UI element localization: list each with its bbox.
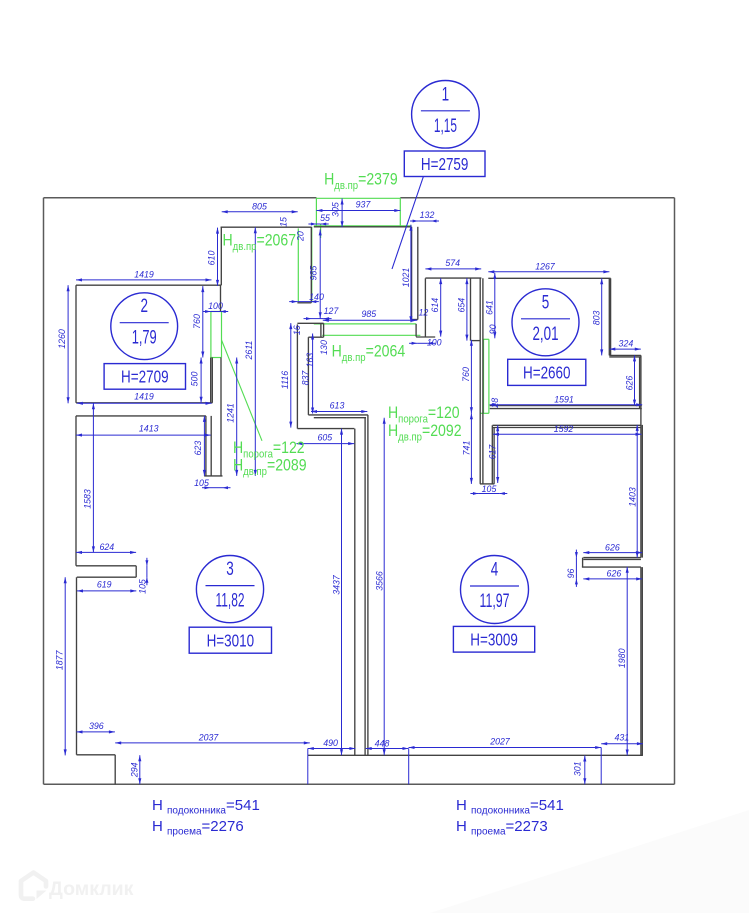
room4 east niche left <box>582 558 584 568</box>
room3 left wall upper <box>75 416 77 566</box>
east wall line a <box>640 355 642 557</box>
outer wall border right <box>674 198 676 785</box>
room 2 circle label <box>111 293 178 360</box>
svg-text:20: 20 <box>296 231 306 242</box>
dimension 2027 <box>409 747 602 749</box>
dimension 1241 <box>236 358 238 476</box>
green door room2 right line <box>221 312 223 358</box>
svg-text:641: 641 <box>485 300 495 315</box>
room 5 circle label <box>512 289 579 356</box>
svg-text:163: 163 <box>305 353 315 368</box>
dimension 626 niche bottom <box>583 578 642 580</box>
room5 bottom wall line b <box>490 408 642 410</box>
niche door-side wall <box>415 324 417 337</box>
svg-text:654: 654 <box>457 298 467 313</box>
svg-text:617: 617 <box>488 444 498 460</box>
svg-text:5: 5 <box>542 292 550 313</box>
svg-text:1877: 1877 <box>55 649 65 670</box>
bottom wall rooms 3 and 4 <box>308 754 643 756</box>
svg-text:105: 105 <box>482 484 497 494</box>
svg-text:760: 760 <box>461 367 471 382</box>
room 1 height box <box>404 151 485 177</box>
room3 pilaster top <box>76 565 136 567</box>
dimension 1419 bottom <box>77 402 212 404</box>
room2 right wall outer line <box>211 358 213 403</box>
dimension 500 <box>200 358 202 403</box>
svg-text:301: 301 <box>573 761 583 776</box>
svg-text:396: 396 <box>89 721 104 731</box>
dimension 1591 <box>490 404 643 406</box>
svg-text:500: 500 <box>190 372 200 387</box>
green leader to door room2 labels <box>222 340 263 441</box>
dimension 1980 <box>626 567 628 756</box>
dimension 605 <box>296 443 354 445</box>
room3 pilaster right <box>135 566 137 577</box>
dimension 610 <box>217 228 219 286</box>
svg-text:127: 127 <box>324 306 340 316</box>
svg-text:626: 626 <box>605 542 620 552</box>
room 2 height box <box>104 364 185 390</box>
svg-text:1241: 1241 <box>226 403 236 423</box>
room4 nook wall line a <box>491 425 493 484</box>
green label H dv.pr=2064 <box>332 343 406 365</box>
dimension 614 <box>440 278 442 337</box>
room4 east niche top line a <box>583 557 641 559</box>
green door 2092 left line <box>483 339 485 413</box>
room2 top wall <box>76 284 221 286</box>
room4 east niche top line b <box>583 558 641 560</box>
green label H dv.pr=2067 <box>223 232 297 254</box>
svg-text:1403: 1403 <box>628 487 638 507</box>
hall top wall <box>221 226 312 228</box>
svg-text:3437: 3437 <box>331 574 341 595</box>
room5 top wall <box>488 277 610 279</box>
dimension 1413 <box>76 434 211 436</box>
svg-text:1116: 1116 <box>280 371 290 389</box>
green door 2092 bottom line <box>480 412 489 414</box>
green label H dv.pr=2379 <box>324 171 398 193</box>
green label H dv.pr=2089 <box>233 457 307 479</box>
hall stub bottom <box>308 336 323 338</box>
dimension 1260 <box>67 285 69 403</box>
svg-text:16: 16 <box>292 325 302 335</box>
green door 2064 top line <box>314 323 416 325</box>
svg-text:619: 619 <box>97 579 112 589</box>
outer wall border left <box>43 198 45 785</box>
green door room2 top line <box>211 311 222 313</box>
dimension 803 <box>601 278 603 355</box>
dimension 105 room4 nook <box>478 493 499 495</box>
svg-text:490: 490 <box>323 738 338 748</box>
svg-text:2027: 2027 <box>489 737 511 747</box>
svg-text:132: 132 <box>420 210 435 220</box>
dimension 1583 <box>92 403 94 552</box>
dimension 805 <box>222 211 298 213</box>
outer wall border top-right segment <box>400 197 674 199</box>
green door 2092 right line <box>488 339 490 413</box>
svg-text:Н=2709: Н=2709 <box>121 367 169 387</box>
dimension 100 room2 door <box>211 311 221 313</box>
room2 right wall inner line <box>210 358 212 403</box>
room3 pilaster bottom <box>77 576 136 578</box>
extension line room4 window left <box>408 749 410 785</box>
green label H poroga=120 <box>388 404 460 426</box>
outer wall border bottom <box>44 783 675 785</box>
svg-text:100: 100 <box>427 338 442 348</box>
dimension 654 <box>466 278 468 341</box>
east wall line b <box>641 425 643 558</box>
svg-text:Н=3009: Н=3009 <box>470 629 518 649</box>
dimension 624 <box>76 551 136 553</box>
svg-text:96: 96 <box>566 569 576 579</box>
room 4 circle label <box>461 556 529 624</box>
room5 right wall line a <box>608 278 610 355</box>
dimension 2037 <box>115 742 310 744</box>
green door 2064 bottom line <box>322 334 420 336</box>
svg-text:2037: 2037 <box>198 732 220 742</box>
svg-text:55: 55 <box>320 213 330 223</box>
svg-text:1267: 1267 <box>535 261 556 271</box>
hall left wall below room2 door <box>220 358 222 476</box>
svg-text:11,82: 11,82 <box>216 591 245 612</box>
dimension 100 niche <box>417 342 427 344</box>
svg-text:90: 90 <box>488 324 498 334</box>
svg-text:837: 837 <box>301 370 311 386</box>
svg-text:3: 3 <box>226 559 234 580</box>
svg-text:741: 741 <box>461 441 471 456</box>
green hall left wall line <box>311 227 313 302</box>
dimension 1419 top <box>76 279 212 281</box>
dimension 623 <box>203 416 205 476</box>
green balcony door sill line <box>316 197 400 199</box>
svg-text:1980: 1980 <box>617 648 627 668</box>
svg-text:805: 805 <box>252 201 267 211</box>
svg-text:Домклик: Домклик <box>49 878 134 900</box>
svg-text:626: 626 <box>607 568 622 578</box>
dimension 3437 <box>341 429 343 756</box>
green door room2 left line <box>210 312 212 358</box>
svg-text:803: 803 <box>592 310 602 325</box>
svg-text:1413: 1413 <box>139 424 159 434</box>
room5 left partition <box>470 278 472 341</box>
svg-text:140: 140 <box>309 292 324 302</box>
bottom-right faint shade <box>430 810 749 913</box>
nook wall bottom cap <box>480 483 494 485</box>
svg-text:12: 12 <box>419 307 429 317</box>
dimension 324 <box>609 348 641 350</box>
dimension 1021 <box>410 225 412 323</box>
svg-text:100: 100 <box>208 301 223 311</box>
dimension 619 <box>77 590 136 592</box>
dimension 2611 <box>254 227 256 476</box>
dimension 140 <box>297 301 311 303</box>
green door frame line <box>320 224 322 238</box>
svg-text:2: 2 <box>140 296 148 317</box>
green balcony door inner line <box>314 225 412 227</box>
room3 top wall left part <box>76 415 206 417</box>
dimension 626 room5 <box>634 355 636 405</box>
hall-room5 wall line b <box>482 278 484 484</box>
dimension 301 <box>584 756 586 785</box>
room 1 circle label <box>412 81 480 149</box>
hall right wall line a <box>411 227 413 320</box>
dimension 760 hall door <box>470 340 472 414</box>
green balcony door jamb right <box>399 198 401 227</box>
dimension 1403 <box>636 425 638 558</box>
dimension 55 <box>316 223 320 225</box>
extension line room3 window left <box>307 749 309 785</box>
svg-text:1419: 1419 <box>134 270 154 280</box>
svg-text:574: 574 <box>445 258 460 268</box>
room 3 height box <box>189 627 271 653</box>
dimension 1116 <box>290 323 292 428</box>
hall stub wall b <box>323 323 325 337</box>
dimension 985 horizontal <box>323 319 417 321</box>
dimension 1877 <box>64 577 66 755</box>
niche top wall <box>425 277 481 279</box>
svg-text:937: 937 <box>356 200 372 210</box>
dimension 574 <box>425 268 481 270</box>
dimension 396 <box>77 731 115 733</box>
hall jog lower horizontal <box>297 322 323 324</box>
svg-text:1260: 1260 <box>57 329 67 349</box>
room2 left wall <box>75 285 77 403</box>
svg-text:Н=2759: Н=2759 <box>421 154 469 174</box>
svg-text:1,15: 1,15 <box>434 116 457 137</box>
svg-text:448: 448 <box>375 738 390 748</box>
svg-text:294: 294 <box>130 762 140 778</box>
dimension 448 <box>366 748 409 750</box>
svg-text:605: 605 <box>317 432 332 442</box>
svg-text:28: 28 <box>490 398 500 409</box>
svg-text:324: 324 <box>619 338 634 348</box>
room5 right step wall line a <box>639 357 641 409</box>
dimension 127 <box>312 318 324 320</box>
room5 step wall bottom line <box>609 356 641 358</box>
svg-text:Н=3010: Н=3010 <box>207 630 255 650</box>
svg-text:2611: 2611 <box>244 340 254 360</box>
hall right wall line b <box>417 227 419 320</box>
svg-text:1592: 1592 <box>554 424 574 434</box>
hall left wall upper <box>220 227 222 285</box>
dimension 617 <box>497 425 499 483</box>
dimension 1267 <box>488 271 609 273</box>
room4 top wall line a <box>493 424 642 426</box>
svg-text:985: 985 <box>361 309 376 319</box>
niche left wall <box>424 278 426 336</box>
extension line room4 window right <box>600 748 602 785</box>
room3 right wall <box>354 429 356 756</box>
room4 left wall line b <box>367 415 369 755</box>
svg-text:985: 985 <box>309 266 319 281</box>
dimension 294 <box>139 755 141 784</box>
dimension 760 room2 <box>202 286 204 357</box>
dimension 613 <box>311 411 367 413</box>
svg-text:623: 623 <box>193 441 203 456</box>
room3 doorway wall line b <box>210 416 212 476</box>
dimension 132 <box>418 220 431 222</box>
dimension 937 <box>316 210 400 212</box>
outer wall border top-left segment <box>44 197 317 199</box>
green balcony door jamb left <box>315 198 317 227</box>
dimension 105 room3 doorway <box>210 487 223 489</box>
room3 window jamb <box>114 755 116 785</box>
green label H dv.pr=2092 <box>388 422 462 444</box>
room4 nook wall line b <box>493 428 495 484</box>
svg-text:1591: 1591 <box>554 394 574 404</box>
svg-text:Н=2660: Н=2660 <box>523 363 571 383</box>
room3 top wall right part <box>297 428 354 430</box>
hall right wall cap <box>412 319 418 321</box>
dimension 1592 <box>493 433 642 435</box>
svg-text:11,97: 11,97 <box>480 591 510 612</box>
svg-text:305: 305 <box>331 202 341 217</box>
room4 left wall line a <box>364 418 366 756</box>
room 3 circle label <box>196 556 263 623</box>
svg-text:4: 4 <box>491 560 499 581</box>
svg-text:760: 760 <box>192 314 202 329</box>
corridor top wall line b <box>314 417 366 419</box>
wall stub above room2 door <box>220 285 222 311</box>
green label H poroga=122 <box>233 439 305 461</box>
dimension 641 <box>494 273 496 338</box>
svg-text:130: 130 <box>319 340 329 355</box>
svg-text:2,01: 2,01 <box>533 324 559 345</box>
svg-text:624: 624 <box>99 542 114 552</box>
hall-room5 wall line a <box>479 278 481 484</box>
svg-text:613: 613 <box>330 400 345 410</box>
room3 left wall lower <box>76 577 78 755</box>
room3 doorway wall line a <box>205 416 207 476</box>
room4 east niche bottom <box>582 566 641 568</box>
room 4 height box <box>453 626 534 652</box>
svg-text:1021: 1021 <box>401 268 411 288</box>
svg-text:610: 610 <box>206 251 216 266</box>
hall lower-left wall <box>296 324 298 428</box>
svg-text:15: 15 <box>279 217 289 227</box>
green door room2 bottom line <box>211 357 222 359</box>
room4 top wall line b <box>493 427 642 429</box>
dimension 305 <box>341 199 343 228</box>
green door 2092 top line <box>484 338 489 340</box>
svg-text:614: 614 <box>430 298 440 313</box>
room4 nook left wall <box>307 337 309 415</box>
svg-text:105: 105 <box>194 478 209 488</box>
dimension 431 <box>601 743 643 745</box>
room5 step wall top line <box>609 354 641 356</box>
room5 bottom wall line a <box>490 405 642 407</box>
svg-text:626: 626 <box>624 376 634 391</box>
svg-text:105: 105 <box>138 579 148 594</box>
room4 right wall lower line a <box>640 567 642 755</box>
svg-text:1419: 1419 <box>134 392 154 402</box>
svg-text:1,79: 1,79 <box>132 328 157 349</box>
niche bottom wall <box>416 336 435 338</box>
room3 doorway wall bottom <box>204 475 222 477</box>
dimension 105 pilaster <box>146 566 148 577</box>
hall right jog wall upper <box>310 227 312 303</box>
svg-text:1583: 1583 <box>82 489 92 509</box>
room5 partition bottom <box>471 340 481 342</box>
leader line room1 <box>392 177 423 270</box>
svg-text:1: 1 <box>442 84 450 105</box>
dimension 96 <box>575 558 577 579</box>
room2 bottom wall <box>76 402 212 404</box>
dimension 741 <box>470 413 472 484</box>
dimension 490 <box>308 748 356 750</box>
hall jog horizontal <box>297 302 311 304</box>
green door 2067 edge line <box>297 228 299 301</box>
dimension 837 <box>312 334 314 414</box>
watermark Domklik icon <box>21 873 134 901</box>
room5 right wall line b <box>610 278 612 355</box>
balcony entry bottom wall <box>314 226 412 228</box>
dimension 3566 <box>383 418 385 756</box>
dimension 626 niche top <box>583 552 642 554</box>
hall stub wall a <box>320 323 322 337</box>
corridor top wall line a <box>308 414 368 416</box>
room 5 height box <box>508 359 586 385</box>
svg-text:3566: 3566 <box>374 571 384 591</box>
room4 right wall lower line b <box>641 567 643 755</box>
room3 bottom wall stub <box>77 754 116 756</box>
dimension 985 vertical <box>319 229 321 318</box>
